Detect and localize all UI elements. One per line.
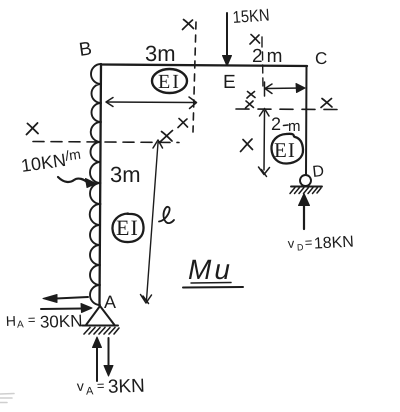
svg-text:m: m <box>288 118 301 135</box>
column AB (member B to A) <box>100 64 102 306</box>
svg-text:D: D <box>312 163 325 181</box>
section line x-x dashed vertical (x=194) <box>193 22 196 132</box>
support D roller circle <box>300 175 311 186</box>
dimension arrow 2m (E to C horizontal) <box>266 87 302 90</box>
svg-text:2m: 2m <box>252 46 282 67</box>
load arrow 15KN at E <box>226 13 228 57</box>
section mark x (left end) <box>27 123 39 135</box>
dimension arrow 3m under beam <box>107 101 195 104</box>
support D ground hatching <box>290 188 321 194</box>
section mark x (bottom of dashed line) <box>178 119 188 128</box>
beam BC (member B to C) <box>101 65 307 67</box>
svg-text:A: A <box>104 292 116 312</box>
action arrow down at A <box>108 338 110 366</box>
svg-text:EI: EI <box>158 71 181 93</box>
svg-text:15KN: 15KN <box>232 5 270 27</box>
title underline short <box>191 282 231 285</box>
member CD <box>305 66 308 175</box>
section line dashed vertical at E (x=263) <box>262 52 265 90</box>
svg-text:3m: 3m <box>145 41 176 66</box>
section mark x (right end) <box>321 99 332 108</box>
svg-text:vA=3KN: vA=3KN <box>77 376 146 399</box>
section mark x (script, left of EI) <box>241 139 253 152</box>
section line x-x dashed horizontal (left, y=141) <box>33 142 179 143</box>
svg-text:2: 2 <box>271 114 281 134</box>
svg-text:HA=30KN: HA=30KN <box>6 310 83 333</box>
length label script l <box>159 207 174 223</box>
reaction arrow HA pointing right at A <box>41 308 83 311</box>
reaction arrow VA up <box>96 346 98 381</box>
svg-text:3m: 3m <box>110 162 141 187</box>
EI label blob (member CD) <box>271 134 303 164</box>
section marks x x (pair near K arrow) <box>247 92 255 99</box>
action arrow pointing left at A <box>56 297 88 299</box>
svg-text:vD=18KN: vD=18KN <box>287 233 354 254</box>
svg-text:Mu: Mu <box>188 254 233 285</box>
svg-text:EI: EI <box>116 215 139 240</box>
section mark x (top of dashed line) <box>183 20 194 30</box>
svg-text:EI: EI <box>274 138 296 162</box>
dimension arrow 2m vertical (section to D level) <box>263 111 266 170</box>
EI label circle (column) <box>112 214 143 243</box>
support D ground line <box>291 186 322 188</box>
section line x-x dashed horizontal (right, y=109) <box>236 108 337 111</box>
svg-text:B: B <box>78 38 93 61</box>
faint scan smudge bottom-left corner <box>0 394 14 403</box>
support A ground hatching <box>84 328 119 335</box>
dimension arrow length l (section to A) <box>147 143 159 300</box>
svg-text:E: E <box>223 72 236 93</box>
svg-text:10KN/m: 10KN/m <box>19 146 82 176</box>
distributed load 10kN/m semicircle bumps on column <box>90 64 101 305</box>
reaction arrow VD up <box>303 204 305 229</box>
section mark x (script, above long arrow head) <box>159 131 173 143</box>
section mark x with tick (above 2m) <box>250 35 260 45</box>
title underline long <box>183 286 243 289</box>
EI label ellipse (beam BC) <box>152 69 187 93</box>
support A pin triangle <box>86 306 115 325</box>
squiggle arrow pointing to load <box>58 177 88 183</box>
svg-text:C: C <box>315 49 327 68</box>
